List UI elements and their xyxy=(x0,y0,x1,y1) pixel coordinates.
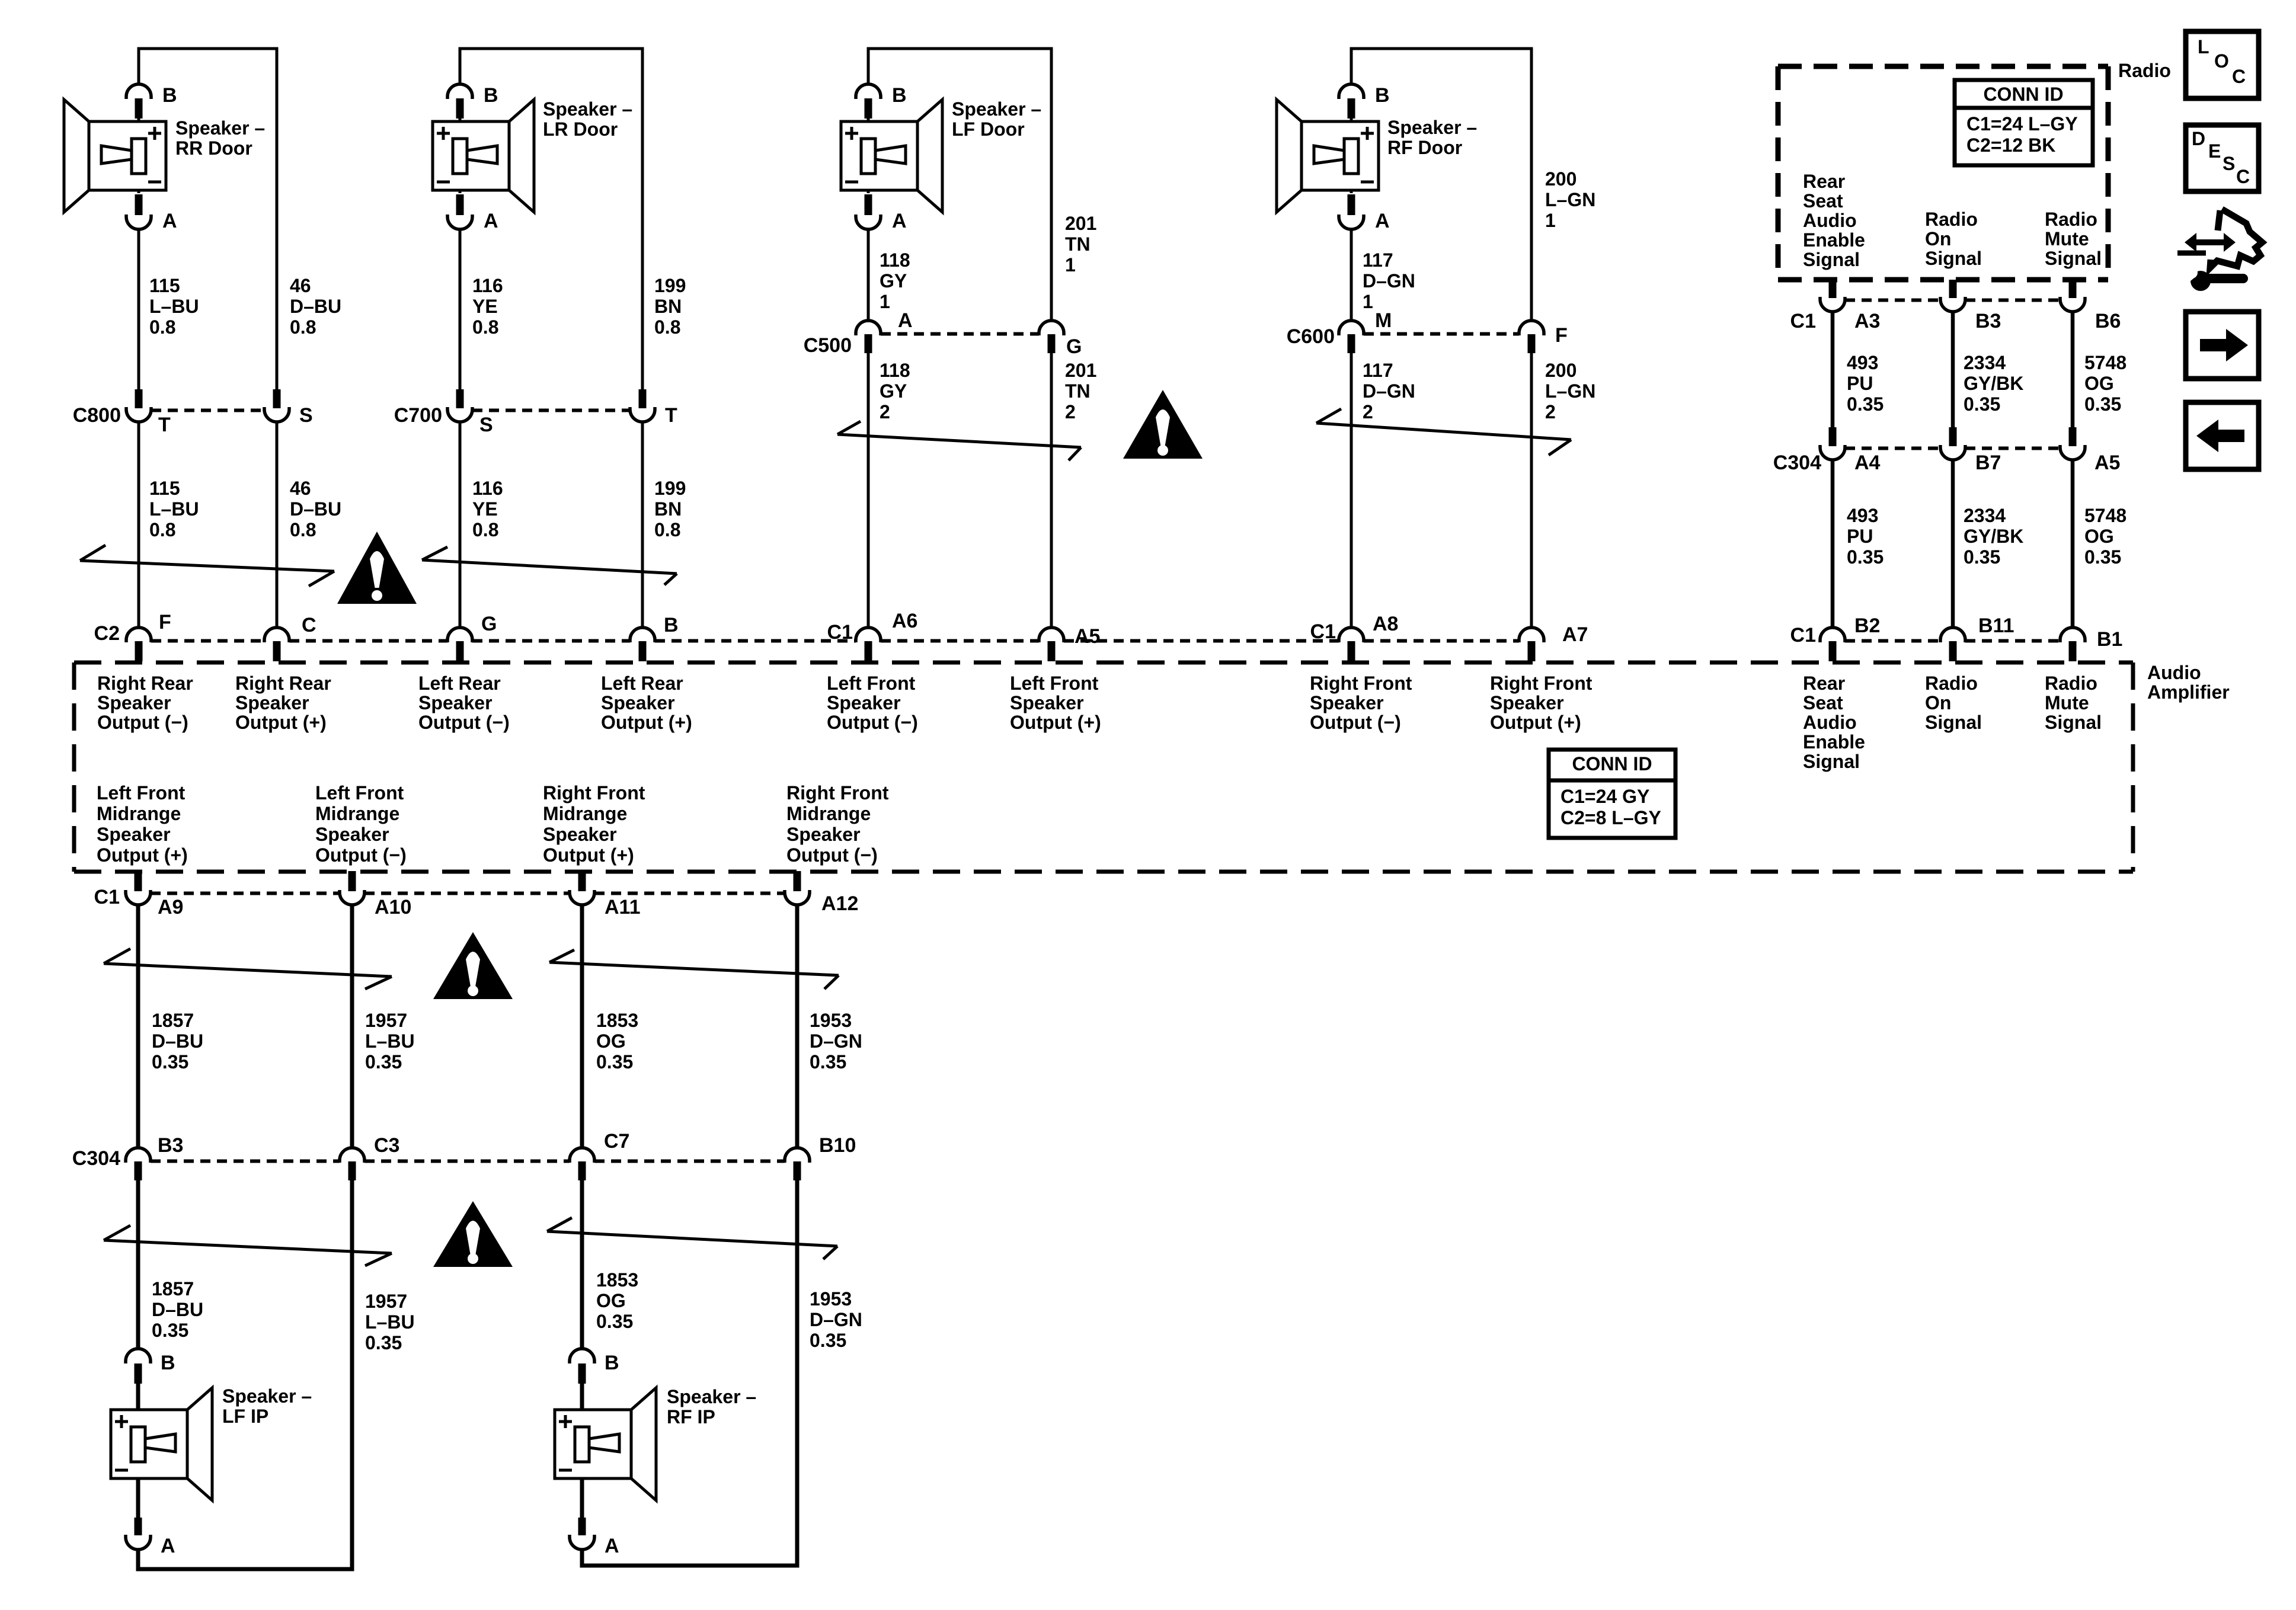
svg-text:S: S xyxy=(2223,153,2235,174)
svg-text:PU: PU xyxy=(1847,373,1873,394)
svg-text:RF IP: RF IP xyxy=(667,1406,715,1427)
svg-text:PU: PU xyxy=(1847,526,1873,547)
svg-text:B1: B1 xyxy=(2097,628,2122,651)
svg-text:Radio: Radio xyxy=(2045,209,2097,230)
svg-text:Left Front: Left Front xyxy=(1010,673,1099,694)
svg-text:Midrange: Midrange xyxy=(315,803,399,824)
svg-text:B6: B6 xyxy=(2095,310,2121,332)
svg-text:D–GN: D–GN xyxy=(810,1309,862,1330)
svg-text:Signal: Signal xyxy=(1925,712,1982,733)
svg-text:Amplifier: Amplifier xyxy=(2147,681,2230,703)
svg-text:Speaker: Speaker xyxy=(315,824,389,845)
svg-text:CONN ID: CONN ID xyxy=(1572,753,1652,774)
svg-text:B: B xyxy=(1375,84,1390,107)
svg-text:C7: C7 xyxy=(604,1130,629,1153)
svg-text:Speaker: Speaker xyxy=(235,692,309,713)
svg-text:A10: A10 xyxy=(375,896,411,918)
svg-text:Midrange: Midrange xyxy=(786,803,871,824)
svg-text:118: 118 xyxy=(880,360,910,381)
svg-text:Output (+): Output (+) xyxy=(1010,712,1101,733)
svg-text:Speaker –: Speaker – xyxy=(222,1385,312,1407)
svg-text:Speaker –: Speaker – xyxy=(667,1386,756,1407)
svg-text:C1: C1 xyxy=(1790,310,1816,332)
svg-text:LF Door: LF Door xyxy=(952,119,1025,140)
svg-text:D–BU: D–BU xyxy=(152,1299,203,1320)
svg-text:Audio: Audio xyxy=(2147,662,2201,683)
svg-text:Audio: Audio xyxy=(1803,210,1857,231)
svg-text:Signal: Signal xyxy=(2045,248,2102,269)
svg-text:C304: C304 xyxy=(1773,452,1821,474)
svg-text:Left Front: Left Front xyxy=(315,782,404,804)
svg-text:A8: A8 xyxy=(1373,613,1398,635)
svg-text:Rear: Rear xyxy=(1803,171,1845,192)
svg-text:Output (−): Output (−) xyxy=(418,712,510,733)
svg-text:C800: C800 xyxy=(73,404,121,427)
svg-text:A: A xyxy=(161,1535,175,1557)
svg-text:B3: B3 xyxy=(158,1134,183,1157)
svg-text:493: 493 xyxy=(1847,505,1878,526)
svg-text:B10: B10 xyxy=(819,1134,856,1157)
svg-text:Speaker –: Speaker – xyxy=(952,98,1041,120)
svg-text:Output (+): Output (+) xyxy=(97,844,188,866)
svg-text:Speaker: Speaker xyxy=(827,692,901,713)
svg-text:Speaker –: Speaker – xyxy=(175,117,265,139)
svg-text:Output (−): Output (−) xyxy=(786,844,878,866)
svg-text:A: A xyxy=(605,1535,619,1557)
svg-text:1: 1 xyxy=(1545,210,1556,231)
svg-text:116: 116 xyxy=(472,478,503,499)
svg-text:C1: C1 xyxy=(827,621,853,644)
svg-text:Radio: Radio xyxy=(2118,60,2171,81)
svg-text:RF Door: RF Door xyxy=(1387,137,1462,158)
svg-text:E: E xyxy=(2208,140,2221,162)
svg-text:C2=8 L–GY: C2=8 L–GY xyxy=(1560,807,1661,828)
svg-text:Right Front: Right Front xyxy=(543,782,645,804)
svg-text:Output (−): Output (−) xyxy=(827,712,918,733)
svg-text:Audio: Audio xyxy=(1803,712,1857,733)
svg-text:M: M xyxy=(1375,309,1392,332)
svg-text:116: 116 xyxy=(472,275,503,296)
svg-text:B11: B11 xyxy=(1978,614,2014,637)
svg-text:C: C xyxy=(2232,66,2246,87)
svg-text:T: T xyxy=(665,404,677,427)
svg-text:L–BU: L–BU xyxy=(365,1311,415,1333)
svg-text:0.35: 0.35 xyxy=(1964,393,2000,415)
svg-text:S: S xyxy=(299,404,313,427)
svg-text:0.8: 0.8 xyxy=(149,519,175,540)
svg-text:C700: C700 xyxy=(394,404,442,427)
svg-text:201: 201 xyxy=(1065,213,1096,234)
svg-text:RR Door: RR Door xyxy=(175,137,252,159)
svg-text:A: A xyxy=(1375,210,1390,232)
svg-text:TN: TN xyxy=(1065,380,1091,402)
svg-text:C3: C3 xyxy=(374,1134,399,1157)
svg-text:OG: OG xyxy=(596,1290,626,1311)
svg-text:F: F xyxy=(1555,324,1568,347)
svg-text:1953: 1953 xyxy=(810,1288,852,1310)
svg-text:2: 2 xyxy=(1545,401,1556,422)
svg-text:B: B xyxy=(484,84,498,107)
svg-text:Speaker: Speaker xyxy=(97,824,171,845)
svg-text:1957: 1957 xyxy=(365,1291,407,1312)
svg-text:0.8: 0.8 xyxy=(654,519,680,540)
svg-text:C1: C1 xyxy=(1790,624,1816,646)
svg-text:0.35: 0.35 xyxy=(810,1051,846,1073)
svg-text:0.35: 0.35 xyxy=(1964,546,2000,568)
svg-text:Output (+): Output (+) xyxy=(601,712,692,733)
svg-text:CONN ID: CONN ID xyxy=(1983,84,2063,105)
svg-text:Speaker –: Speaker – xyxy=(1387,117,1477,138)
svg-text:Left Front: Left Front xyxy=(827,673,916,694)
svg-text:118: 118 xyxy=(880,249,910,271)
svg-text:GY: GY xyxy=(880,380,907,402)
svg-text:Speaker: Speaker xyxy=(418,692,493,713)
svg-text:A4: A4 xyxy=(1854,452,1881,474)
svg-text:0.35: 0.35 xyxy=(365,1332,402,1353)
svg-text:Midrange: Midrange xyxy=(543,803,627,824)
svg-text:2334: 2334 xyxy=(1964,352,2006,373)
svg-text:D–GN: D–GN xyxy=(810,1030,862,1052)
svg-text:2: 2 xyxy=(1065,401,1076,422)
svg-text:YE: YE xyxy=(472,498,498,520)
svg-text:Output (−): Output (−) xyxy=(1310,712,1401,733)
svg-text:GY: GY xyxy=(880,270,907,292)
svg-text:D–GN: D–GN xyxy=(1363,380,1415,402)
svg-text:A3: A3 xyxy=(1854,310,1880,332)
svg-text:Rear: Rear xyxy=(1803,673,1845,694)
svg-text:0.35: 0.35 xyxy=(596,1051,633,1073)
svg-text:Speaker: Speaker xyxy=(786,824,861,845)
svg-text:O: O xyxy=(2214,50,2229,72)
svg-text:A: A xyxy=(892,210,907,232)
svg-text:D–BU: D–BU xyxy=(290,296,341,317)
svg-text:A11: A11 xyxy=(605,896,641,918)
svg-text:A5: A5 xyxy=(1075,625,1100,648)
svg-text:B7: B7 xyxy=(1975,452,2001,474)
svg-text:A9: A9 xyxy=(158,896,183,918)
svg-text:A: A xyxy=(162,210,177,232)
svg-text:A7: A7 xyxy=(1562,623,1588,646)
svg-text:Speaker: Speaker xyxy=(1490,692,1564,713)
svg-text:0.8: 0.8 xyxy=(472,519,498,540)
svg-text:A: A xyxy=(898,309,913,332)
svg-text:Speaker: Speaker xyxy=(601,692,675,713)
svg-text:BN: BN xyxy=(654,498,682,520)
svg-text:493: 493 xyxy=(1847,352,1878,373)
svg-text:Signal: Signal xyxy=(1803,751,1860,772)
svg-text:Speaker: Speaker xyxy=(1310,692,1384,713)
svg-text:Radio: Radio xyxy=(2045,673,2097,694)
svg-text:T: T xyxy=(158,414,171,436)
svg-text:0.35: 0.35 xyxy=(810,1330,846,1351)
svg-text:C2: C2 xyxy=(94,622,120,645)
svg-text:C2=12 BK: C2=12 BK xyxy=(1966,135,2055,156)
svg-text:1: 1 xyxy=(1363,291,1373,312)
svg-text:OG: OG xyxy=(2084,373,2114,394)
svg-text:A12: A12 xyxy=(821,892,858,915)
svg-text:115: 115 xyxy=(149,275,180,296)
svg-text:C: C xyxy=(2236,166,2250,187)
svg-text:On: On xyxy=(1925,692,1951,713)
svg-text:C1: C1 xyxy=(1310,620,1336,643)
svg-text:1: 1 xyxy=(880,291,890,312)
svg-text:Midrange: Midrange xyxy=(97,803,181,824)
svg-text:LR Door: LR Door xyxy=(543,119,618,140)
svg-text:Right Rear: Right Rear xyxy=(235,673,331,694)
svg-text:YE: YE xyxy=(472,296,498,317)
svg-text:0.35: 0.35 xyxy=(2084,393,2121,415)
svg-text:Left Front: Left Front xyxy=(97,782,186,804)
svg-text:B: B xyxy=(892,84,907,107)
svg-text:Mute: Mute xyxy=(2045,692,2089,713)
svg-text:D–GN: D–GN xyxy=(1363,270,1415,292)
svg-text:5748: 5748 xyxy=(2084,505,2126,526)
svg-text:L: L xyxy=(2198,36,2209,57)
svg-text:0.8: 0.8 xyxy=(290,316,316,338)
svg-text:200: 200 xyxy=(1545,360,1576,381)
svg-text:1: 1 xyxy=(1065,254,1076,276)
svg-text:46: 46 xyxy=(290,275,311,296)
svg-text:D: D xyxy=(2192,128,2205,149)
svg-text:0.35: 0.35 xyxy=(2084,546,2121,568)
svg-text:Output (+): Output (+) xyxy=(235,712,327,733)
svg-text:A5: A5 xyxy=(2094,452,2120,474)
svg-text:S: S xyxy=(479,414,493,436)
svg-text:Speaker: Speaker xyxy=(1010,692,1084,713)
svg-text:Left Rear: Left Rear xyxy=(418,673,501,694)
svg-text:0.35: 0.35 xyxy=(596,1311,633,1332)
svg-text:1853: 1853 xyxy=(596,1010,638,1031)
svg-text:Output (−): Output (−) xyxy=(315,844,407,866)
svg-text:Radio: Radio xyxy=(1925,209,1978,230)
svg-text:D–BU: D–BU xyxy=(152,1030,203,1052)
svg-text:5748: 5748 xyxy=(2084,352,2126,373)
svg-text:0.35: 0.35 xyxy=(1847,546,1884,568)
svg-text:201: 201 xyxy=(1065,360,1096,381)
svg-text:Right Front: Right Front xyxy=(1490,673,1593,694)
svg-text:Signal: Signal xyxy=(1803,249,1860,270)
svg-text:0.35: 0.35 xyxy=(152,1051,188,1073)
svg-text:Seat: Seat xyxy=(1803,190,1843,212)
svg-text:0.8: 0.8 xyxy=(149,316,175,338)
svg-text:F: F xyxy=(159,611,171,633)
svg-text:1957: 1957 xyxy=(365,1010,407,1031)
svg-text:Signal: Signal xyxy=(1925,248,1982,269)
svg-text:C600: C600 xyxy=(1287,325,1335,348)
svg-text:115: 115 xyxy=(149,478,180,499)
svg-text:0.35: 0.35 xyxy=(1847,393,1884,415)
svg-text:1857: 1857 xyxy=(152,1278,194,1299)
svg-text:B: B xyxy=(161,1352,175,1374)
svg-text:Seat: Seat xyxy=(1803,692,1843,713)
svg-text:C1: C1 xyxy=(94,886,120,908)
svg-text:C1=24 L–GY: C1=24 L–GY xyxy=(1966,113,2078,135)
svg-text:B: B xyxy=(162,84,177,107)
svg-text:1853: 1853 xyxy=(596,1269,638,1291)
svg-text:L–GN: L–GN xyxy=(1545,189,1595,210)
svg-text:199: 199 xyxy=(654,478,686,499)
svg-text:L–BU: L–BU xyxy=(149,498,199,520)
svg-text:On: On xyxy=(1925,228,1951,249)
svg-text:117: 117 xyxy=(1363,249,1393,271)
svg-text:C500: C500 xyxy=(804,334,852,357)
svg-text:L–GN: L–GN xyxy=(1545,380,1595,402)
svg-text:Output (−): Output (−) xyxy=(97,712,188,733)
svg-text:Left Rear: Left Rear xyxy=(601,673,683,694)
svg-text:Speaker –: Speaker – xyxy=(543,98,632,120)
svg-text:C1=24 GY: C1=24 GY xyxy=(1560,786,1649,807)
svg-text:200: 200 xyxy=(1545,168,1576,190)
svg-text:Right Front: Right Front xyxy=(786,782,889,804)
svg-text:0.35: 0.35 xyxy=(152,1320,188,1341)
svg-text:Speaker: Speaker xyxy=(543,824,617,845)
svg-text:OG: OG xyxy=(596,1030,626,1052)
svg-text:2334: 2334 xyxy=(1964,505,2006,526)
svg-text:2: 2 xyxy=(1363,401,1373,422)
svg-text:Enable: Enable xyxy=(1803,731,1865,753)
svg-text:Radio: Radio xyxy=(1925,673,1978,694)
svg-text:2: 2 xyxy=(880,401,890,422)
svg-text:GY/BK: GY/BK xyxy=(1964,373,2023,394)
svg-text:1857: 1857 xyxy=(152,1010,194,1031)
svg-text:G: G xyxy=(481,613,497,635)
svg-text:OG: OG xyxy=(2084,526,2114,547)
svg-text:B2: B2 xyxy=(1854,614,1880,637)
svg-text:Enable: Enable xyxy=(1803,229,1865,251)
svg-text:Output (+): Output (+) xyxy=(1490,712,1581,733)
svg-text:TN: TN xyxy=(1065,233,1091,255)
svg-text:B: B xyxy=(664,614,679,636)
svg-text:B3: B3 xyxy=(1975,310,2001,332)
svg-text:Output (+): Output (+) xyxy=(543,844,634,866)
svg-text:Mute: Mute xyxy=(2045,228,2089,249)
svg-text:Right Front: Right Front xyxy=(1310,673,1412,694)
svg-text:0.8: 0.8 xyxy=(290,519,316,540)
svg-text:117: 117 xyxy=(1363,360,1393,381)
svg-text:Speaker: Speaker xyxy=(97,692,171,713)
svg-text:G: G xyxy=(1066,335,1082,358)
svg-text:Right Rear: Right Rear xyxy=(97,673,193,694)
svg-text:B: B xyxy=(605,1352,619,1374)
svg-text:0.8: 0.8 xyxy=(654,316,680,338)
svg-text:BN: BN xyxy=(654,296,682,317)
svg-text:A: A xyxy=(484,210,498,232)
svg-text:0.35: 0.35 xyxy=(365,1051,402,1073)
svg-text:GY/BK: GY/BK xyxy=(1964,526,2023,547)
svg-text:0.8: 0.8 xyxy=(472,316,498,338)
svg-text:A6: A6 xyxy=(892,610,917,632)
svg-text:46: 46 xyxy=(290,478,311,499)
svg-text:C304: C304 xyxy=(72,1147,120,1170)
svg-text:199: 199 xyxy=(654,275,686,296)
svg-text:C: C xyxy=(302,614,316,636)
svg-text:D–BU: D–BU xyxy=(290,498,341,520)
svg-text:Signal: Signal xyxy=(2045,712,2102,733)
svg-text:L–BU: L–BU xyxy=(149,296,199,317)
svg-text:LF IP: LF IP xyxy=(222,1406,268,1427)
svg-text:1953: 1953 xyxy=(810,1010,852,1031)
svg-text:L–BU: L–BU xyxy=(365,1030,415,1052)
